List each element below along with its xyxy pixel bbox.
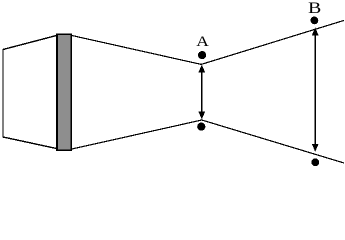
- svg-text:B: B: [308, 0, 321, 17]
- svg-text:A: A: [196, 34, 209, 50]
